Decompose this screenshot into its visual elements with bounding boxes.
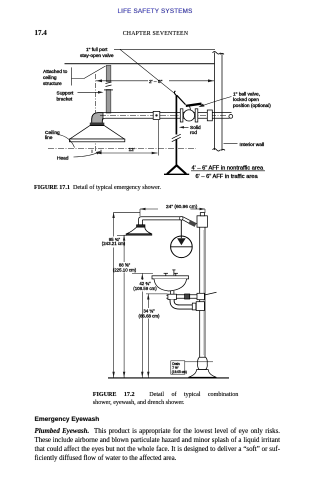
svg-text:line: line (45, 135, 53, 141)
svg-text:4' – 6" AFF in nontraffic area: 4' – 6" AFF in nontraffic area (192, 165, 264, 171)
svg-text:(108.59 cm): (108.59 cm) (133, 286, 157, 291)
svg-text:(19.05 cm): (19.05 cm) (172, 370, 187, 374)
svg-text:rod: rod (190, 130, 197, 136)
svg-text:stay-open valve: stay-open valve (80, 53, 114, 59)
svg-text:Solid: Solid (190, 125, 201, 131)
svg-text:structure: structure (43, 81, 62, 87)
svg-text:Support: Support (57, 90, 74, 96)
svg-text:(243.21 cm): (243.21 cm) (102, 241, 126, 246)
svg-text:locked open: locked open (233, 97, 259, 103)
svg-text:24" (60.96 cm): 24" (60.96 cm) (166, 204, 198, 210)
svg-text:12': 12' (129, 147, 135, 153)
svg-text:Head: Head (57, 155, 69, 161)
svg-text:1" ball valve,: 1" ball valve, (233, 92, 260, 98)
svg-text:2' – 0": 2' – 0" (149, 79, 163, 85)
svg-text:Ceiling: Ceiling (45, 130, 60, 136)
svg-text:(86.68 cm): (86.68 cm) (139, 314, 161, 319)
svg-text:ceiling: ceiling (43, 75, 57, 81)
svg-text:(225.10 cm): (225.10 cm) (113, 268, 137, 273)
svg-text:position (optional): position (optional) (233, 103, 271, 109)
svg-text:bracket: bracket (57, 96, 73, 102)
svg-text:Interior wall: Interior wall (240, 142, 265, 148)
svg-text:1" full port: 1" full port (86, 47, 108, 53)
svg-text:6' – 6" AFF in traffic area: 6' – 6" AFF in traffic area (196, 174, 259, 180)
svg-text:Attached to: Attached to (43, 69, 68, 75)
